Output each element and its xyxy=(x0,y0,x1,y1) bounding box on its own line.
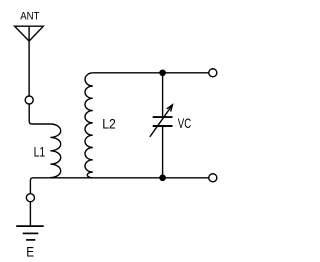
terminal output bottom xyxy=(209,174,217,182)
terminal ground connection xyxy=(26,194,34,202)
wire antenna lead down xyxy=(28,41,30,96)
wire terminal to ground xyxy=(29,202,31,225)
junction dot top xyxy=(159,69,166,76)
ground E xyxy=(16,226,44,240)
svg-text:L1: L1 xyxy=(34,143,46,159)
terminal antenna connection xyxy=(25,96,33,104)
svg-text:L2: L2 xyxy=(102,116,116,132)
wire top rail xyxy=(93,72,209,74)
wire terminal to L1 top xyxy=(29,104,50,124)
inductor L2 xyxy=(85,73,93,178)
svg-text:E: E xyxy=(26,243,34,259)
wire bottom rail xyxy=(30,178,208,194)
junction dot bottom xyxy=(159,174,166,181)
svg-text:VC: VC xyxy=(178,115,191,131)
wire VC bottom xyxy=(162,127,164,178)
variable capacitor VC xyxy=(150,105,173,137)
svg-text:ANT: ANT xyxy=(20,11,40,23)
antenna ANT xyxy=(15,26,44,41)
wire VC top xyxy=(162,73,164,116)
inductor L1 xyxy=(50,124,60,178)
terminal output top xyxy=(209,69,217,77)
